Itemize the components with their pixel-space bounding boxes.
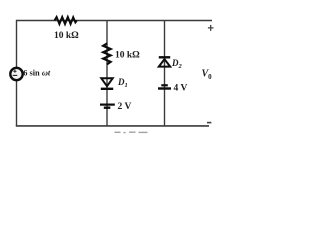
bottom wire (16, 125, 209, 127)
battery 4 V (158, 85, 171, 88)
output plus terminal (208, 25, 214, 31)
label D1 (117, 77, 128, 89)
label 6 sin wt (23, 69, 51, 78)
resistor R1 10 kOhm horizontal (55, 17, 77, 24)
wire: middle branch (106, 21, 108, 127)
diode D1 (101, 78, 113, 89)
svg-text:4 V: 4 V (174, 84, 188, 94)
caption fragment (cropped gray text) (115, 131, 148, 133)
svg-text:10 kΩ: 10 kΩ (115, 51, 140, 61)
label 10 kOhm (R2) (115, 51, 140, 61)
svg-text:6 sin ωt: 6 sin ωt (23, 69, 51, 78)
left wire (16, 20, 18, 126)
label 4 V (174, 84, 188, 94)
wire: right branch (164, 21, 166, 127)
label D2 (171, 58, 183, 70)
top wire (17, 20, 213, 22)
label 2 V (118, 102, 132, 112)
svg-text:V0: V0 (202, 69, 213, 81)
svg-text:D1: D1 (117, 77, 128, 89)
diode D2 (159, 57, 170, 66)
voltage source VS (10, 68, 22, 80)
resistor R2 10 kOhm vertical (103, 44, 110, 65)
label 10 kOhm (R1) (54, 31, 79, 41)
battery 2 V (100, 105, 115, 108)
label Vo (202, 69, 213, 81)
svg-text:D2: D2 (171, 58, 183, 70)
output minus terminal (207, 122, 211, 124)
svg-text:2 V: 2 V (118, 102, 132, 112)
svg-text:10 kΩ: 10 kΩ (54, 31, 79, 41)
